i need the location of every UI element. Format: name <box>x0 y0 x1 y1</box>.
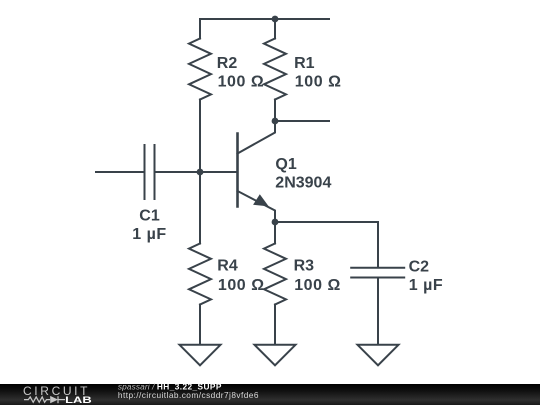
node top rail <box>272 16 279 23</box>
svg-text:100 Ω: 100 Ω <box>295 74 342 91</box>
svg-text:1 µF: 1 µF <box>132 226 167 243</box>
logo resistor-diode symbol <box>24 396 65 403</box>
svg-text:100 Ω: 100 Ω <box>218 277 265 294</box>
node emitter <box>272 219 279 226</box>
wire C1 to node <box>156 171 201 173</box>
wire top rail <box>200 18 329 20</box>
svg-text:100 Ω: 100 Ω <box>218 74 265 91</box>
svg-text:C1: C1 <box>139 208 160 225</box>
svg-text:R4: R4 <box>217 258 238 275</box>
svg-text:R1: R1 <box>294 55 315 72</box>
resistor R4 <box>189 172 211 345</box>
transistor Q1 <box>238 121 276 222</box>
svg-text:http://circuitlab.com/csddr7j8: http://circuitlab.com/csddr7j8vfde6 <box>118 390 259 400</box>
svg-text:2N3904: 2N3904 <box>275 175 331 192</box>
node input/base <box>197 169 204 176</box>
resistor R3 <box>264 222 286 345</box>
svg-text:LAB: LAB <box>65 395 92 405</box>
resistor R1 <box>264 19 286 121</box>
svg-text:Q1: Q1 <box>275 156 296 173</box>
capacitor C1 <box>145 145 155 199</box>
svg-text:R2: R2 <box>217 55 238 72</box>
svg-text:C2: C2 <box>409 258 430 275</box>
svg-text:R3: R3 <box>294 258 315 275</box>
wire collector stub <box>275 120 329 122</box>
wire emitter to C2 <box>275 221 378 223</box>
node collector <box>272 118 279 125</box>
ground R4 <box>180 345 221 366</box>
ground R3 <box>255 345 296 366</box>
svg-text:1 µF: 1 µF <box>409 277 444 294</box>
wire base <box>200 171 237 173</box>
wire input <box>96 171 144 173</box>
footer bar <box>0 384 540 405</box>
capacitor C2 <box>351 222 404 345</box>
svg-text:100 Ω: 100 Ω <box>294 277 341 294</box>
ground C2 <box>358 345 399 366</box>
resistor R2 <box>189 19 211 172</box>
